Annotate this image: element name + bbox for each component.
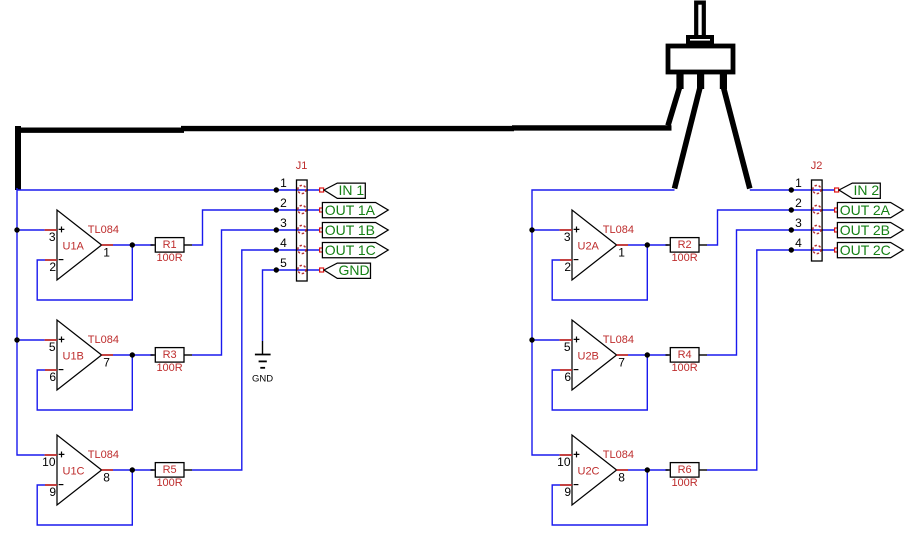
U1C inverting input stub pin 9 xyxy=(45,484,57,486)
svg-text:6: 6 xyxy=(564,370,571,384)
resistor R1 right lead xyxy=(184,244,192,246)
wire U2C output to R6 xyxy=(628,469,669,471)
op-amp U2C body xyxy=(572,435,617,505)
svg-text:3: 3 xyxy=(280,216,287,230)
junction at U1B output xyxy=(130,352,135,357)
junction J2 pin 2 xyxy=(789,207,794,212)
svg-text:R1: R1 xyxy=(163,239,177,251)
svg-text:8: 8 xyxy=(103,470,110,484)
U1B output stub pin 7 xyxy=(102,354,113,356)
svg-text:U1C: U1C xyxy=(63,465,85,477)
junction rail / U1B input xyxy=(14,337,19,342)
switch SW1 right leg wire xyxy=(724,88,750,189)
svg-text:6: 6 xyxy=(49,370,56,384)
U2A output stub pin 1 xyxy=(617,244,628,246)
svg-text:1: 1 xyxy=(280,176,287,190)
terminal square J1 pin 4 xyxy=(320,248,324,252)
op-amp U2A body xyxy=(572,210,617,280)
junction at U1C output xyxy=(130,467,135,472)
svg-text:TL084: TL084 xyxy=(88,224,119,236)
svg-text:7: 7 xyxy=(618,355,625,369)
U2C minus sign xyxy=(574,484,579,486)
U2A minus sign xyxy=(574,259,579,261)
feedback wire U2A output to pin 2 xyxy=(552,245,647,300)
J1 pin 2 symbol xyxy=(298,205,306,213)
svg-text:100R: 100R xyxy=(156,477,182,489)
connector J1 body xyxy=(297,180,308,281)
J1 pin 4 symbol xyxy=(298,245,306,253)
svg-text:2: 2 xyxy=(49,260,56,274)
wire U1C output to R5 xyxy=(113,469,154,471)
wire R5 to J1 pin 4 xyxy=(192,250,320,470)
terminal square J2 pin 2 xyxy=(835,208,839,212)
svg-text:4: 4 xyxy=(795,236,802,250)
U2B output stub pin 7 xyxy=(617,354,628,356)
wire rail to U2B pin 5 xyxy=(532,339,560,341)
flag IN 2 xyxy=(839,183,880,198)
junction J2 pin 3 xyxy=(789,227,794,232)
switch SW1 middle pin stub xyxy=(697,70,704,89)
junction rail / U2B input xyxy=(529,337,534,342)
resistor R4 left lead xyxy=(666,354,671,356)
svg-text:1: 1 xyxy=(618,245,625,259)
feedback wire U2B output to pin 6 xyxy=(552,355,647,410)
junction J1 pin 2 xyxy=(274,207,279,212)
resistor R3 left lead xyxy=(151,354,156,356)
svg-text:OUT 1B: OUT 1B xyxy=(325,222,375,238)
svg-text:J1: J1 xyxy=(296,160,308,172)
svg-text:U1A: U1A xyxy=(63,240,85,252)
junction rail / U2A input xyxy=(529,227,534,232)
junction at U2A output xyxy=(645,242,650,247)
wire R6 to J2 pin 4 xyxy=(707,250,835,470)
svg-text:2: 2 xyxy=(795,196,802,210)
wire U1B output to R3 xyxy=(113,354,154,356)
svg-text:1: 1 xyxy=(795,176,802,190)
resistor R1 body xyxy=(155,238,184,253)
svg-text:100R: 100R xyxy=(671,252,697,264)
wire thick input bus vertical segment xyxy=(15,126,21,190)
switch SW1 lever xyxy=(696,3,704,38)
svg-text:3: 3 xyxy=(564,230,571,244)
op-amp U1C body xyxy=(57,435,102,505)
J2 pin 4 symbol xyxy=(813,245,821,253)
svg-text:IN 1: IN 1 xyxy=(339,182,365,198)
switch SW1 left leg wire xyxy=(668,88,680,126)
svg-text:2: 2 xyxy=(564,260,571,274)
U1A output stub pin 1 xyxy=(102,244,113,246)
svg-text:TL084: TL084 xyxy=(88,449,119,461)
svg-text:J2: J2 xyxy=(811,160,823,172)
U1B inverting input stub pin 6 xyxy=(45,369,57,371)
svg-text:8: 8 xyxy=(618,470,625,484)
resistor R4 body xyxy=(670,348,699,363)
U1B plus sign xyxy=(59,337,65,343)
junction rail / U1A input xyxy=(14,227,19,232)
J2 pin 2 symbol xyxy=(813,205,821,213)
svg-text:10: 10 xyxy=(42,455,56,469)
U2A inverting input stub pin 2 xyxy=(560,259,572,261)
svg-text:4: 4 xyxy=(280,236,287,250)
flag OUT 1B xyxy=(322,223,388,238)
U2C inverting input stub pin 9 xyxy=(560,484,572,486)
wire U2B output to R4 xyxy=(628,354,669,356)
junction at U2C output xyxy=(645,467,650,472)
junction J2 pin 1 xyxy=(789,187,794,192)
svg-text:U2C: U2C xyxy=(578,465,600,477)
svg-text:9: 9 xyxy=(564,485,571,499)
U2B non-inverting input stub pin 5 xyxy=(560,339,572,341)
resistor R4 right lead xyxy=(699,354,707,356)
J2 pin 1 symbol xyxy=(813,185,821,193)
feedback wire U1B output to pin 6 xyxy=(37,355,132,410)
U2B minus sign xyxy=(574,369,579,371)
J1 pin 5 symbol xyxy=(298,265,306,273)
J1 pin 1 symbol xyxy=(298,185,306,193)
svg-text:U2B: U2B xyxy=(578,350,599,362)
svg-text:100R: 100R xyxy=(671,362,697,374)
wire thick input bus horizontal segment 2 xyxy=(181,126,514,131)
svg-text:OUT 2C: OUT 2C xyxy=(840,242,891,258)
svg-text:3: 3 xyxy=(795,216,802,230)
U1C plus sign xyxy=(59,452,65,458)
flag OUT 2C xyxy=(837,243,903,258)
junction at U1A output xyxy=(130,242,135,247)
resistor R6 left lead xyxy=(666,469,671,471)
terminal square J1 pin 1 xyxy=(320,188,324,192)
wire R1 to J1 pin 2 xyxy=(192,210,320,245)
svg-text:100R: 100R xyxy=(156,252,182,264)
flag OUT 2A xyxy=(837,203,903,218)
U2B inverting input stub pin 6 xyxy=(560,369,572,371)
flag OUT 1C xyxy=(322,243,388,258)
resistor R5 left lead xyxy=(151,469,156,471)
junction J2 pin 4 xyxy=(789,247,794,252)
resistor R5 body xyxy=(155,463,184,478)
feedback wire U1C output to pin 9 xyxy=(37,470,132,525)
resistor R1 left lead xyxy=(151,244,156,246)
svg-text:TL084: TL084 xyxy=(603,224,634,236)
flag OUT 1A xyxy=(322,203,388,218)
U1A minus sign xyxy=(59,259,64,261)
switch SW1 collar xyxy=(688,37,712,43)
wire U2A output to R2 xyxy=(628,244,669,246)
wire rail to U1A pin 3 xyxy=(17,229,45,231)
switch SW1 body xyxy=(668,46,733,72)
svg-text:OUT 1A: OUT 1A xyxy=(325,202,376,218)
U1B non-inverting input stub pin 5 xyxy=(45,339,57,341)
op-amp U1B body xyxy=(57,320,102,390)
svg-text:R6: R6 xyxy=(678,464,692,476)
terminal square J1 pin 5 xyxy=(320,268,324,272)
svg-text:1: 1 xyxy=(103,245,110,259)
wire node IN1 to J1 pin 1 xyxy=(17,189,320,191)
svg-text:TL084: TL084 xyxy=(88,334,119,346)
wire right input rail from switch middle leg xyxy=(532,190,675,455)
resistor R2 body xyxy=(670,238,699,253)
feedback wire U1A output to pin 2 xyxy=(37,245,132,300)
svg-text:5: 5 xyxy=(49,340,56,354)
terminal square J2 pin 3 xyxy=(835,228,839,232)
junction J1 pin 1 xyxy=(274,187,279,192)
flag OUT 2B xyxy=(837,223,903,238)
svg-text:5: 5 xyxy=(564,340,571,354)
svg-text:TL084: TL084 xyxy=(603,334,634,346)
terminal square J2 pin 4 xyxy=(835,248,839,252)
J2 pin 3 symbol xyxy=(813,225,821,233)
resistor R2 right lead xyxy=(699,244,707,246)
switch SW1 middle leg wire xyxy=(675,88,701,189)
flag IN 1 xyxy=(324,183,365,198)
svg-text:R3: R3 xyxy=(163,349,177,361)
U2C plus sign xyxy=(574,452,580,458)
wire R2 to J2 pin 2 xyxy=(707,210,835,245)
svg-text:7: 7 xyxy=(103,355,110,369)
svg-text:10: 10 xyxy=(557,455,571,469)
U2A non-inverting input stub pin 3 xyxy=(560,229,572,231)
U1A non-inverting input stub pin 3 xyxy=(45,229,57,231)
U1C output stub pin 8 xyxy=(102,469,113,471)
svg-text:IN 2: IN 2 xyxy=(854,182,880,198)
wire thick input bus horizontal segment 3 xyxy=(512,125,672,130)
U1A plus sign xyxy=(59,227,65,233)
wire U1A output to R1 xyxy=(113,244,154,246)
wire J1 pin 5 to ground xyxy=(263,270,320,341)
svg-text:R2: R2 xyxy=(678,239,692,251)
op-amp U2B body xyxy=(572,320,617,390)
terminal square J1 pin 2 xyxy=(320,208,324,212)
resistor R6 right lead xyxy=(699,469,707,471)
op-amp U1A body xyxy=(57,210,102,280)
resistor R6 body xyxy=(670,463,699,478)
svg-text:GND: GND xyxy=(252,374,273,385)
svg-text:OUT 2A: OUT 2A xyxy=(840,202,891,218)
svg-text:2: 2 xyxy=(280,196,287,210)
ground symbol xyxy=(252,341,273,385)
resistor R3 right lead xyxy=(184,354,192,356)
svg-text:GND: GND xyxy=(339,262,370,278)
resistor R3 body xyxy=(155,348,184,363)
wire R3 to J1 pin 3 xyxy=(192,230,320,355)
svg-text:TL084: TL084 xyxy=(603,449,634,461)
resistor R2 left lead xyxy=(666,244,671,246)
switch SW1 right pin stub xyxy=(720,70,727,89)
flag GND xyxy=(324,263,371,278)
feedback wire U2C output to pin 9 xyxy=(552,470,647,525)
junction J1 pin 5 xyxy=(274,267,279,272)
J1 pin 3 symbol xyxy=(298,225,306,233)
svg-text:R5: R5 xyxy=(163,464,177,476)
svg-text:U1B: U1B xyxy=(63,350,84,362)
wire switch right leg to J2 pin 1 xyxy=(750,189,835,191)
junction at U2B output xyxy=(645,352,650,357)
U2C output stub pin 8 xyxy=(617,469,628,471)
U2A plus sign xyxy=(574,227,580,233)
svg-text:100R: 100R xyxy=(156,362,182,374)
terminal square J1 pin 3 xyxy=(320,228,324,232)
svg-text:OUT 2B: OUT 2B xyxy=(840,222,890,238)
U2C non-inverting input stub pin 10 xyxy=(560,454,572,456)
wire rail to U2A pin 3 xyxy=(532,229,560,231)
connector J2 body xyxy=(812,180,823,261)
U1C minus sign xyxy=(59,484,64,486)
resistor R5 right lead xyxy=(184,469,192,471)
switch SW1 left pin stub xyxy=(676,70,683,89)
svg-text:U2A: U2A xyxy=(578,240,600,252)
wire rail to U1B pin 5 xyxy=(17,339,45,341)
terminal square J2 pin 1 xyxy=(835,188,839,192)
U1C non-inverting input stub pin 10 xyxy=(45,454,57,456)
U2B plus sign xyxy=(574,337,580,343)
svg-text:9: 9 xyxy=(49,485,56,499)
U1B minus sign xyxy=(59,369,64,371)
wire left input rail xyxy=(17,188,45,455)
junction J1 pin 3 xyxy=(274,227,279,232)
svg-text:3: 3 xyxy=(49,230,56,244)
junction J1 pin 4 xyxy=(274,247,279,252)
svg-text:R4: R4 xyxy=(678,349,692,361)
U1A inverting input stub pin 2 xyxy=(45,259,57,261)
wire thick input bus horizontal segment 1 xyxy=(15,127,184,132)
svg-text:OUT 1C: OUT 1C xyxy=(325,242,376,258)
wire R4 to J2 pin 3 xyxy=(707,230,835,355)
svg-text:5: 5 xyxy=(280,256,287,270)
svg-text:100R: 100R xyxy=(671,477,697,489)
